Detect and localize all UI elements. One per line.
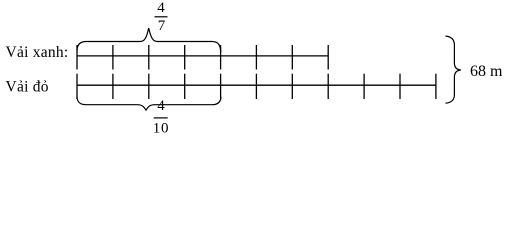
top bar tick 8	[327, 45, 329, 70]
top bar tick 6	[255, 45, 257, 70]
bottom bar tick 5	[220, 74, 222, 99]
top bar tick 5	[220, 45, 222, 70]
fraction 4/10 bar	[154, 117, 168, 119]
bottom bar tick 3	[148, 74, 150, 99]
svg-text:Vải đỏ: Vải đỏ	[6, 79, 49, 96]
bottom bar tick 7	[291, 74, 293, 99]
bottom bar tick 4	[184, 74, 186, 99]
bottom bar tick 10	[399, 74, 401, 99]
svg-text:7: 7	[158, 18, 166, 34]
bottom bar tick 2	[112, 74, 114, 99]
top bar tick 7	[291, 45, 293, 70]
bottom bar tick 6	[255, 74, 257, 99]
bottom bar tick 11	[435, 74, 437, 99]
svg-text:4: 4	[157, 0, 165, 16]
top bar tick 3	[148, 45, 150, 70]
top bar line (Vai xanh, 7 units)	[77, 55, 328, 57]
top bar tick 1	[76, 45, 78, 70]
svg-text:Vải xanh:: Vải xanh:	[6, 44, 69, 61]
svg-text:10: 10	[153, 121, 169, 137]
bottom bar tick 9	[363, 74, 365, 99]
overbrace over first 4 segments of top bar	[77, 28, 221, 53]
underbrace under first 4 segments of bottom bar	[77, 97, 221, 111]
right curly brace grouping both bars	[446, 36, 461, 103]
svg-text:68 m: 68 m	[470, 63, 503, 80]
bottom bar tick 8	[327, 74, 329, 99]
bottom bar line (Vai do, 10 units)	[77, 84, 436, 86]
bottom bar tick 1	[76, 74, 78, 99]
svg-text:4: 4	[157, 98, 165, 114]
fraction 4/7 bar	[155, 16, 168, 18]
top bar tick 4	[184, 45, 186, 70]
top bar tick 2	[112, 45, 114, 70]
